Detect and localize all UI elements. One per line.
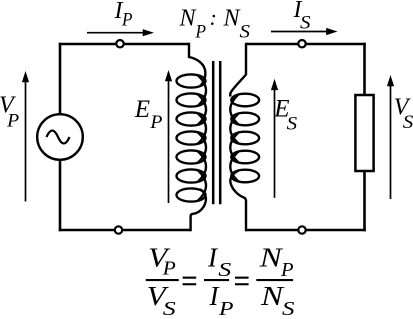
transformer secondary lead bottom [230, 170, 246, 231]
eq equals 1 [183, 277, 197, 279]
wire right vertical lower [363, 171, 366, 231]
svg-text:E: E [134, 96, 150, 123]
transformer core line 2 [219, 61, 222, 204]
node top-left [116, 40, 123, 47]
svg-text:S: S [218, 259, 231, 281]
arrow IP [87, 32, 144, 34]
arrow VS [390, 85, 392, 199]
label EP [134, 96, 163, 133]
arrow VP [25, 81, 27, 201]
wire left vertical lower [59, 160, 62, 231]
arrow ES [274, 89, 276, 198]
wire top-left horizontal [59, 43, 189, 46]
arrow EP [168, 80, 170, 203]
wire top-right horizontal [246, 43, 366, 46]
wire bottom-right horizontal [246, 229, 366, 232]
equation VP/VS = IS/IP = NP/NS [146, 242, 295, 319]
eq frac2 bar [204, 279, 229, 281]
node bottom-right [298, 226, 305, 233]
label ES [273, 96, 297, 135]
wire bottom-left horizontal [59, 229, 191, 232]
svg-text:P: P [149, 112, 162, 133]
wire left vertical [59, 43, 62, 114]
transformer primary lead bottom [191, 189, 206, 231]
svg-text:P: P [162, 258, 176, 280]
svg-text:P: P [218, 298, 234, 319]
eq frac1 bar [146, 279, 179, 281]
label IP [114, 0, 133, 31]
primary coil connector arcs [198, 75, 206, 106]
svg-text:P: P [6, 111, 19, 132]
transformer secondary coil L2 [230, 94, 259, 183]
node top-right [298, 40, 305, 47]
svg-text:S: S [163, 298, 176, 319]
wire right vertical upper [363, 43, 366, 95]
label VP [0, 93, 20, 132]
transformer core line 1 [212, 61, 215, 204]
transformer secondary lead top [230, 43, 246, 97]
svg-text:P: P [280, 259, 293, 281]
svg-text::: : [210, 5, 217, 30]
transformer primary coil L1 [177, 74, 207, 201]
label NP:NS [179, 5, 251, 42]
label VS [394, 95, 413, 134]
svg-text:S: S [300, 13, 311, 34]
svg-text:P: P [195, 21, 207, 42]
svg-text:S: S [403, 112, 413, 133]
sine wave inside source [47, 131, 70, 144]
svg-text:S: S [287, 114, 298, 135]
eq equals 2 [235, 277, 249, 279]
svg-text:P: P [121, 10, 133, 31]
arrow IS [271, 31, 328, 33]
svg-text:S: S [240, 21, 251, 42]
svg-text:S: S [282, 298, 295, 319]
secondary coil connector arcs [230, 94, 238, 124]
resistor RL [355, 95, 373, 171]
eq frac3 bar [256, 279, 293, 281]
label IS [293, 0, 312, 34]
AC source V1 [37, 114, 83, 160]
transformer primary lead top [189, 43, 205, 86]
node bottom-left [115, 226, 122, 233]
